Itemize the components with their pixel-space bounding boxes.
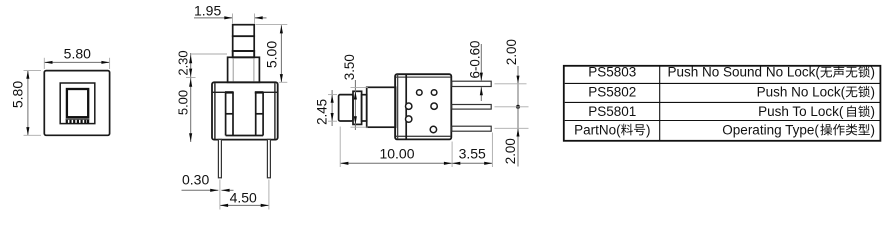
part number table frame bbox=[564, 66, 881, 141]
side view plunger mid step bbox=[353, 91, 362, 124]
front view left leg bbox=[218, 139, 221, 177]
table row PS5801 bbox=[588, 104, 875, 119]
dimension 1.95 (plunger width) bbox=[194, 3, 267, 24]
dimension 5.00 (plunger height, right) bbox=[256, 25, 288, 83]
top view button cap bbox=[67, 89, 88, 117]
side view switch body bbox=[395, 74, 451, 139]
svg-text:PS5802: PS5802 bbox=[588, 84, 636, 99]
svg-text:2.45: 2.45 bbox=[315, 99, 330, 125]
front view right channel bbox=[255, 91, 264, 135]
svg-text:Operating Type(: Operating Type( bbox=[722, 122, 819, 137]
dimension 10.00 (overall length) bbox=[340, 127, 452, 168]
side view bottom pin bbox=[452, 126, 491, 131]
dimension 0.30 (leg width) bbox=[182, 171, 234, 192]
dimension 2.00 (top pin pitch) bbox=[495, 39, 529, 109]
svg-text:2.00: 2.00 bbox=[503, 138, 518, 164]
dimension 4.50 (leg pitch) bbox=[220, 180, 269, 210]
dimension 5.80 vertical (top view height) bbox=[10, 71, 41, 136]
svg-text:PS5801: PS5801 bbox=[588, 104, 636, 119]
svg-text:4.50: 4.50 bbox=[230, 190, 257, 206]
svg-text:3.50: 3.50 bbox=[342, 54, 357, 80]
dimension 2.30 (left) bbox=[176, 50, 227, 77]
front view centre floor line bbox=[226, 135, 264, 137]
front view left channel bbox=[225, 91, 234, 135]
side view plunger tip bbox=[339, 95, 353, 121]
svg-text:1.95: 1.95 bbox=[194, 3, 221, 19]
side view rivet holes bbox=[406, 90, 438, 133]
side view body inner lines bbox=[396, 75, 451, 140]
svg-text:): ) bbox=[871, 122, 876, 137]
table row PartNo bbox=[574, 122, 875, 137]
front view switch body bbox=[212, 82, 278, 139]
dimension 3.50 (flange height) bbox=[342, 54, 368, 130]
front view plunger band 3 bbox=[233, 51, 255, 57]
dimension 2.00 (bottom pin pitch) bbox=[495, 107, 529, 167]
svg-text:): ) bbox=[871, 84, 876, 99]
svg-text:): ) bbox=[871, 65, 876, 80]
svg-text:): ) bbox=[871, 104, 876, 119]
dimension 5.80 horizontal (top view width) bbox=[44, 46, 109, 69]
svg-text:2.00: 2.00 bbox=[504, 39, 519, 65]
svg-text:3.55: 3.55 bbox=[459, 146, 486, 162]
svg-text:5.80: 5.80 bbox=[64, 46, 91, 62]
front view right leg bbox=[267, 139, 270, 177]
svg-text:0.30: 0.30 bbox=[182, 171, 209, 187]
svg-text:10.00: 10.00 bbox=[379, 146, 414, 162]
svg-text:2.30: 2.30 bbox=[176, 50, 191, 75]
table row PS5803 bbox=[588, 65, 875, 80]
top view outer square bbox=[44, 71, 109, 136]
side view cover seam line bbox=[405, 74, 407, 139]
svg-text:Push No Lock(: Push No Lock( bbox=[757, 84, 846, 99]
top view inner square bbox=[60, 83, 95, 124]
svg-text:Push To Lock(: Push To Lock( bbox=[758, 104, 844, 119]
svg-text:PartNo(: PartNo( bbox=[574, 122, 621, 137]
front view plunger top band 1 bbox=[233, 25, 255, 37]
svg-text:5.80: 5.80 bbox=[10, 81, 26, 108]
svg-text:): ) bbox=[646, 122, 651, 137]
front view body inner lining bbox=[212, 83, 278, 139]
dimension 3.55 (pin length) bbox=[452, 133, 492, 168]
side view middle pin bbox=[452, 105, 491, 110]
svg-text:5.00: 5.00 bbox=[263, 41, 279, 68]
svg-text:PS5803: PS5803 bbox=[588, 65, 636, 80]
dimension 2.45 (tip height) bbox=[315, 90, 338, 126]
front view plunger band 2 bbox=[233, 36, 255, 51]
side view plunger neck bbox=[362, 95, 367, 121]
dimension 6-0.60 (pin thickness) bbox=[467, 41, 483, 101]
svg-text:Push No Sound No Lock(: Push No Sound No Lock( bbox=[668, 65, 821, 80]
side view top pin bbox=[452, 81, 491, 86]
svg-text:5.00: 5.00 bbox=[176, 90, 191, 115]
table row PS5802 bbox=[588, 84, 875, 99]
side view plunger flange bbox=[367, 87, 396, 127]
top view button serration comb bbox=[66, 119, 90, 123]
dimension 5.00 (body height, left) bbox=[176, 78, 193, 143]
front view plunger wide section bbox=[228, 57, 260, 82]
